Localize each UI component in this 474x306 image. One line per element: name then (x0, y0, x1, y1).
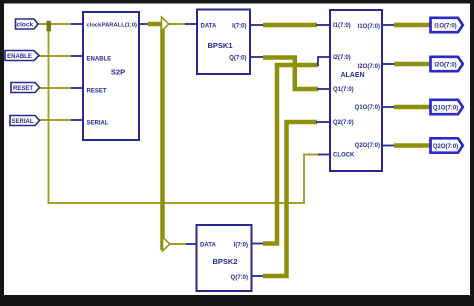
wire BPSK2 I(7:0) to ALAEN I2(7:0) (252, 57, 331, 244)
output port Q1O(7:0) (431, 100, 463, 114)
block U3 BPSK2 (197, 225, 252, 291)
wire SERIAL tag to S2P (40, 119, 84, 121)
junction clock node (47, 21, 51, 32)
wire ALAEN I2O(7:0) to output tag (382, 63, 431, 65)
output port I2O(7:0) (431, 57, 463, 71)
wire clock net to ALAEN CLOCK (49, 24, 331, 203)
wire ALAEN Q1O(7:0) to output tag (382, 106, 431, 108)
wire tap to BPSK2 DATA (170, 243, 197, 245)
block U4 ALAEN (330, 10, 382, 171)
wire ALAEN I1O(7:0) to output tag (382, 24, 431, 26)
wire BPSK2 Q(7:0) to ALAEN Q2(7:0) (252, 122, 331, 276)
wire tap to BPSK1 DATA (169, 23, 197, 25)
bus tap to BPSK2 DATA (163, 237, 170, 251)
wire ENABLE tag to S2P (39, 55, 83, 57)
wire ALAEN Q2O(7:0) to output tag (382, 145, 431, 147)
input port SERIAL (10, 116, 40, 126)
bus tap to BPSK1 DATA (162, 17, 169, 31)
wire PARALL bus vertical to BPSK2 (160, 24, 165, 250)
output port Q2O(7:0) (431, 138, 463, 152)
wire BPSK1 Q(7:0) to ALAEN Q1(7:0) (250, 57, 330, 89)
wire RESET tag to S2P (40, 87, 84, 89)
wire PARALL(1:0) bus from S2P (139, 23, 162, 25)
input port clock (16, 19, 39, 29)
block U2 BPSK1 (197, 10, 250, 75)
input port RESET (11, 83, 40, 93)
input port ENABLE (5, 51, 39, 61)
output port I1O(7:0) (431, 18, 463, 32)
wire clock tag to S2P (38, 23, 83, 25)
block U1 S2P (83, 12, 139, 140)
wire BPSK1 I(7:0) to ALAEN I1(7:0) (250, 24, 330, 26)
